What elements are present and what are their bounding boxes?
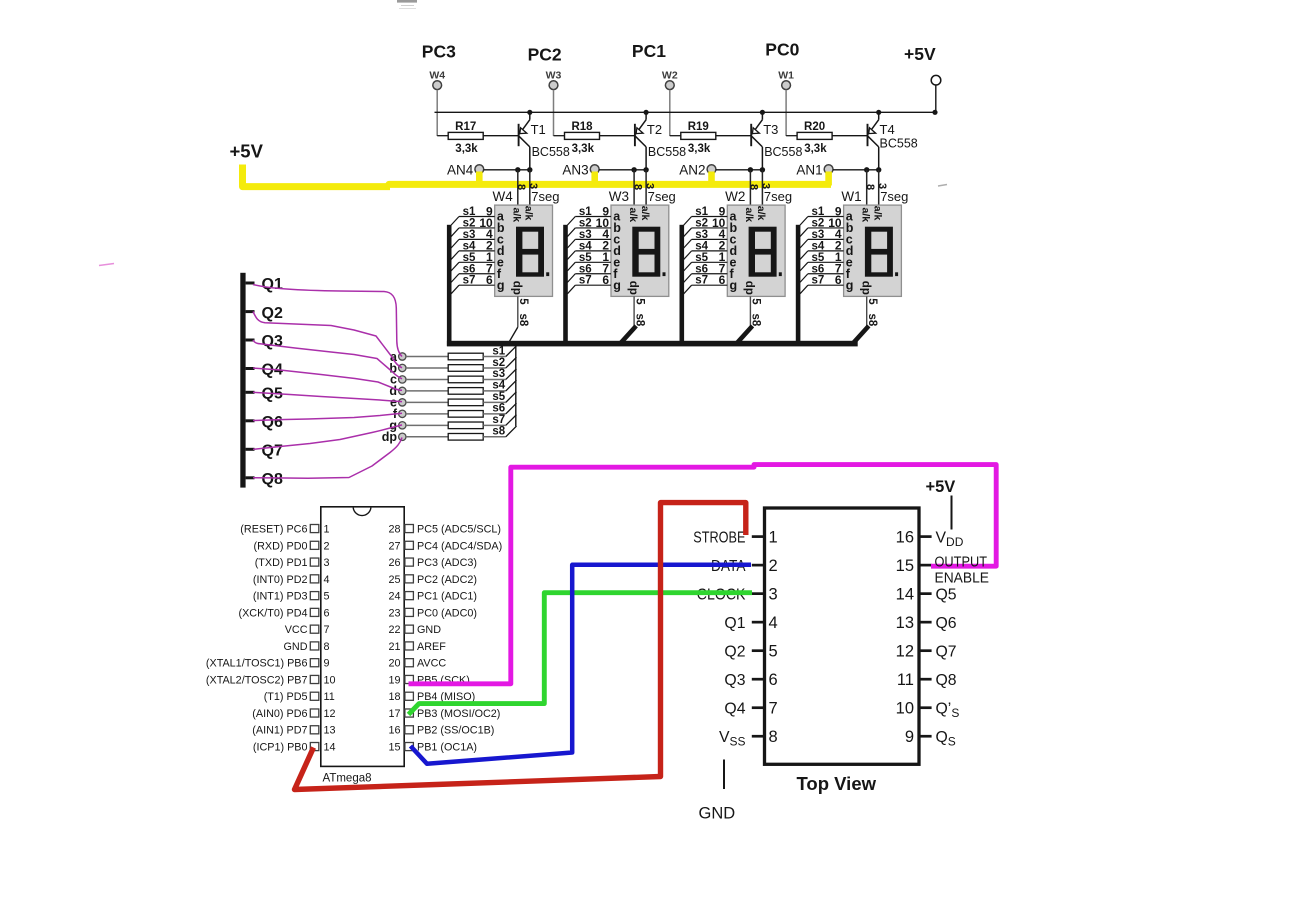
pin letter e [846, 256, 853, 270]
U1 pin 8 (GND) [284, 641, 330, 653]
segment net vertical collector line [515, 346, 517, 426]
Q8 bus tick [246, 476, 255, 479]
pin number 4 [719, 227, 726, 241]
U1 pin 12 ((AIN0) PD6) [252, 708, 335, 720]
+5V supply label (U2) [926, 478, 956, 496]
svg-text:W2: W2 [725, 189, 745, 204]
svg-text:W2: W2 [662, 70, 678, 82]
transistor T1 BC558 [519, 111, 530, 169]
svg-text:6: 6 [602, 273, 609, 287]
net label s1 [579, 206, 592, 218]
svg-text:s7: s7 [579, 275, 592, 287]
U2 pin label Q2 [724, 643, 745, 660]
svg-text:PB1 (OC1A): PB1 (OC1A) [417, 742, 477, 754]
pin letter d [613, 244, 621, 258]
yellow stub at AN3 [591, 172, 598, 186]
pin letter f [730, 267, 735, 281]
svg-text:s2: s2 [463, 217, 476, 229]
display W4 dp/s8 wire [509, 296, 518, 342]
label W1 [841, 189, 861, 204]
display W3 pin g (s7) wire [567, 285, 611, 294]
U1 pin 11 ((T1) PD5) [264, 691, 335, 703]
pin number 3 (rotated) [643, 183, 655, 189]
svg-text:5: 5 [324, 591, 330, 603]
U2 pin number 3 [769, 585, 778, 603]
svg-text:20: 20 [388, 658, 400, 670]
svg-text:Q7: Q7 [262, 443, 283, 460]
U2 pin 4 stub [752, 621, 765, 624]
wire +5V to VDD pin 16 [951, 496, 953, 530]
display W3 decimal point [663, 272, 666, 276]
net label s4 [579, 240, 592, 252]
svg-text:12: 12 [896, 642, 914, 660]
svg-text:PB2 (SS/OC1B): PB2 (SS/OC1B) [417, 725, 494, 737]
display W3 dp label (rotated) [627, 281, 639, 295]
svg-text:s4: s4 [695, 240, 708, 252]
segment resistor row s6 [406, 403, 517, 417]
U2 pin 6 stub [752, 678, 765, 681]
net label s4 [492, 380, 505, 392]
net label s4 [695, 240, 708, 252]
svg-text:9: 9 [905, 728, 914, 746]
svg-text:BC558: BC558 [648, 145, 686, 159]
net label s1 [492, 345, 505, 357]
svg-text:BC558: BC558 [532, 145, 570, 159]
svg-text:PC3: PC3 [422, 41, 456, 61]
net label s6 [579, 263, 592, 275]
net label s2 [812, 217, 825, 229]
U2 pin label VSS [719, 729, 746, 749]
pin number 10 [479, 216, 493, 230]
display W1 decimal point [895, 272, 898, 276]
svg-text:14: 14 [896, 585, 914, 603]
svg-text:14: 14 [324, 742, 336, 754]
svg-text:s2: s2 [812, 217, 825, 229]
svg-text:3,3k: 3,3k [804, 143, 827, 155]
display W3 a/k labels (rotated) [627, 206, 651, 222]
pin letter c [846, 233, 853, 247]
svg-text:a/k: a/k [511, 208, 523, 223]
net label s7 [492, 414, 505, 426]
U1 pin 10 ((XTAL2/TOSC2) PB7) [206, 674, 336, 686]
display W1 pin c (s3) wire [800, 239, 844, 248]
svg-text:Q8: Q8 [936, 672, 957, 689]
svg-text:a/k: a/k [639, 206, 651, 221]
label W3 [609, 189, 629, 204]
resistor R17 [437, 132, 518, 139]
svg-text:s1: s1 [492, 345, 505, 357]
display W3 pin e (s5) wire [567, 262, 611, 271]
display W4 dp label (rotated) [511, 281, 523, 295]
display W3 pin c (s3) wire [567, 239, 611, 248]
pin number 1 [602, 250, 609, 264]
label R19 [688, 121, 709, 133]
svg-text:s1: s1 [579, 206, 592, 218]
pin letter f [613, 267, 618, 281]
label 7seg [764, 189, 792, 204]
svg-text:Q6: Q6 [936, 615, 957, 632]
U1 pin 1 ((RESET) PC6) [240, 524, 329, 536]
blue wire PB1(OC1A) to DATA pin 2 [411, 565, 752, 764]
wire W2 down to base resistor [669, 90, 671, 136]
U2 pin 15 stub [919, 564, 932, 567]
net label s5 [579, 252, 592, 264]
svg-text:AREF: AREF [417, 641, 446, 653]
pin number 4 [486, 227, 493, 241]
svg-text:24: 24 [388, 591, 400, 603]
pin number 3 (rotated) [760, 183, 772, 189]
svg-text:5: 5 [633, 298, 645, 305]
svg-text:s1: s1 [695, 206, 708, 218]
svg-text:dp: dp [859, 281, 871, 295]
display W4 a/k labels (rotated) [511, 206, 535, 222]
net label s6 [695, 263, 708, 275]
value 3,3k [804, 143, 827, 155]
svg-text:5: 5 [866, 298, 878, 305]
wire AN3 to transistor collector [599, 169, 646, 171]
svg-text:1: 1 [769, 528, 778, 546]
svg-text:a/k: a/k [743, 208, 755, 223]
pin number 1 [835, 250, 842, 264]
U2 pin number 10 [896, 699, 914, 717]
wire W3 down to base resistor [553, 90, 555, 136]
net label s3 [812, 229, 825, 241]
U2 pin label DATA [711, 558, 746, 575]
svg-text:s8: s8 [492, 426, 505, 438]
pin number 2 [486, 239, 493, 253]
svg-text:(XTAL1/TOSC1) PB6: (XTAL1/TOSC1) PB6 [206, 658, 308, 670]
svg-text:7seg: 7seg [880, 189, 908, 204]
Q4 bus tick [246, 367, 255, 370]
U1 pin 13 ((AIN1) PD7) [252, 725, 335, 737]
pin number 10 [828, 216, 842, 230]
U2 pin number 11 [897, 671, 914, 689]
svg-text:10: 10 [896, 699, 914, 717]
pin letter g [730, 278, 738, 292]
svg-text:W4: W4 [493, 189, 514, 204]
U2 pin label Q8 [936, 672, 957, 689]
svg-text:R20: R20 [804, 121, 825, 133]
svg-text:Top View: Top View [797, 773, 877, 794]
svg-text:s8: s8 [866, 314, 878, 327]
wire Q5 to segment e [253, 392, 402, 401]
Q1 bus tick [246, 282, 255, 285]
svg-text:Q1: Q1 [262, 276, 283, 293]
shift register U2 body (Top View) [765, 508, 920, 764]
svg-text:STROBE: STROBE [693, 529, 745, 546]
svg-text:7seg: 7seg [531, 189, 559, 204]
U1 pin 6 ((XCK/T0) PD4) [239, 607, 330, 619]
U1 pin 23 (PC0 (ADC0)) [388, 607, 477, 619]
U1 pin 28 (PC5 (ADC5/SCL)) [388, 524, 501, 536]
U2 pin label STROBE [693, 529, 745, 546]
display W4 pin e (s5) wire [451, 262, 495, 271]
+5V supply label (left) [230, 141, 264, 162]
scan artifact top edge [397, 0, 417, 9]
node e terminal [390, 396, 406, 410]
net label s4 [812, 240, 825, 252]
resistor R20 [786, 132, 867, 139]
segment resistor row s1 [406, 346, 517, 360]
svg-text:s6: s6 [579, 263, 592, 275]
net label s1 [695, 206, 708, 218]
display W4 pin b (s2) wire [451, 228, 495, 237]
net label s7 [695, 275, 708, 287]
U1 pin 17 (PB3 (MOSI/OC2)) [388, 708, 500, 720]
svg-text:dp: dp [743, 281, 755, 295]
svg-text:25: 25 [388, 574, 400, 586]
svg-text:5: 5 [750, 298, 762, 305]
svg-text:2: 2 [769, 557, 778, 575]
U1 pin 20 (AVCC) [388, 658, 446, 670]
U2 pin 3 stub [752, 592, 765, 595]
svg-text:11: 11 [897, 671, 914, 689]
svg-text:s6: s6 [812, 263, 825, 275]
pin number 8 (rotated) [748, 184, 760, 190]
pin number 6 [602, 273, 609, 287]
svg-text:s5: s5 [695, 252, 708, 264]
wire Q1 to segment a [253, 285, 402, 357]
node W3 terminal [546, 70, 562, 90]
segment resistor row s7 [406, 415, 517, 429]
pin number 6 [835, 273, 842, 287]
svg-text:s7: s7 [695, 275, 708, 287]
net label s7 [812, 275, 825, 287]
net label s1 [463, 206, 476, 218]
wire Q7 to segment g [253, 425, 402, 449]
pin number 7 [719, 262, 726, 276]
net label s6 [492, 403, 505, 415]
net label Q5 [262, 386, 283, 403]
wire W4 down to base resistor [436, 90, 438, 136]
svg-text:Q3: Q3 [262, 333, 283, 350]
svg-text:8: 8 [864, 184, 876, 190]
segment bus vertical bar (W4) [447, 225, 452, 346]
display W1 pin d (s4) wire [800, 251, 844, 260]
svg-text:s5: s5 [579, 252, 592, 264]
svg-text:s7: s7 [492, 414, 505, 426]
svg-text:(RESET) PC6: (RESET) PC6 [240, 524, 307, 536]
U2 pin number 6 [769, 671, 778, 689]
U2 pin number 14 [896, 585, 914, 603]
pin number 3 (rotated) [876, 183, 888, 189]
svg-text:BC558: BC558 [880, 137, 918, 151]
svg-text:PC1 (ADC1): PC1 (ADC1) [417, 591, 477, 603]
node g terminal [389, 419, 406, 433]
svg-text:22: 22 [388, 624, 400, 636]
svg-text:8: 8 [748, 184, 760, 190]
pin number 2 [835, 239, 842, 253]
display W4 body [495, 205, 553, 296]
label Top View [797, 773, 877, 794]
display W3 pin b (s2) wire [567, 228, 611, 237]
node c terminal [390, 373, 406, 387]
microcontroller U1 ATmega8 body [321, 507, 404, 767]
Q7 bus tick [246, 448, 255, 451]
node AN2 terminal [679, 162, 716, 177]
port label PC2 [528, 45, 562, 65]
U2 pin number 13 [896, 614, 914, 632]
display W4 decimal point [546, 272, 549, 276]
pin letter c [613, 233, 620, 247]
svg-text:9: 9 [324, 658, 330, 670]
Q6 bus tick [246, 419, 255, 422]
display W3 pin f (s6) wire [567, 274, 611, 283]
svg-text:PC3 (ADC3): PC3 (ADC3) [417, 557, 477, 569]
label T1 [531, 122, 546, 137]
U2 pin 11 stub [919, 678, 932, 681]
node b terminal [389, 361, 406, 375]
svg-text:s4: s4 [579, 240, 592, 252]
svg-text:6: 6 [486, 273, 493, 287]
net label s3 [463, 229, 476, 241]
net label s8 (rotated) [517, 314, 529, 327]
svg-text:s8: s8 [517, 314, 529, 327]
label T4 [880, 122, 895, 137]
pin number 5 (rotated) [866, 298, 878, 305]
svg-text:7seg: 7seg [648, 189, 676, 204]
svg-text:Q2: Q2 [262, 305, 283, 322]
svg-text:W1: W1 [778, 70, 794, 82]
U1 pin 3 ((TXD) PD1) [255, 557, 330, 569]
pin letter f [846, 267, 851, 281]
svg-text:a/k: a/k [523, 206, 535, 221]
U2 pin 1 stub [752, 535, 765, 538]
pin number 1 [719, 250, 726, 264]
wire W1 down to base resistor [785, 90, 787, 136]
net label s7 [463, 275, 476, 287]
display W2 decimal point [779, 272, 782, 276]
svg-text:Q6: Q6 [262, 414, 283, 431]
display W3 dp/s8 wire [622, 296, 635, 342]
net label Q3 [262, 333, 283, 350]
pin letter a [613, 210, 621, 224]
net label Q6 [262, 414, 283, 431]
svg-text:19: 19 [388, 674, 400, 686]
net label s8 [492, 426, 505, 438]
svg-text:PC5 (ADC5/SCL): PC5 (ADC5/SCL) [417, 524, 501, 536]
pin number 8 (rotated) [631, 184, 643, 190]
junction display pins on AN4 wire [515, 167, 532, 172]
display W1 pin g (s7) wire [800, 285, 844, 294]
svg-text:g: g [730, 278, 738, 292]
svg-text:PC1: PC1 [632, 41, 666, 61]
display W2 7seg a/k pin wires to AN row [750, 170, 762, 205]
scan artifact gray dash [938, 185, 947, 187]
svg-text:3: 3 [769, 585, 778, 603]
svg-text:s3: s3 [695, 229, 708, 241]
net label s8 (rotated) [866, 314, 878, 327]
display W2 body [727, 205, 785, 296]
pin letter a [497, 210, 505, 224]
pin letter b [613, 221, 621, 235]
svg-text:26: 26 [388, 557, 400, 569]
display W2 pin a (s1) wire [684, 217, 728, 226]
wire Q2 to segment b [253, 312, 402, 368]
U2 pin 12 stub [919, 649, 932, 652]
svg-text:g: g [846, 278, 854, 292]
display W3 digit 8 [632, 227, 660, 277]
red wire PB0(ICP1) to STROBE pin 1 [295, 503, 746, 790]
pin letter c [730, 233, 737, 247]
display W1 pin e (s5) wire [800, 262, 844, 271]
label ATmega8 [323, 772, 372, 784]
U2 pin label Q4 [724, 700, 745, 717]
label R20 [804, 121, 825, 133]
net label s3 [492, 368, 505, 380]
svg-text:11: 11 [324, 691, 335, 703]
display W3 7seg a/k pin wires to AN row [634, 170, 646, 205]
segment bus horizontal bar [447, 341, 858, 347]
+5V terminal (top right) [931, 75, 941, 112]
node W2 terminal [662, 70, 678, 90]
U2 pin 8 stub [752, 735, 765, 738]
svg-text:18: 18 [388, 691, 400, 703]
pin letter d [497, 244, 505, 258]
display W2 a/k labels (rotated) [743, 206, 767, 222]
label R17 [455, 121, 476, 133]
label W4 [493, 189, 514, 204]
node f terminal [393, 407, 406, 421]
svg-text:T1: T1 [531, 122, 546, 137]
scan artifact pink dash left [99, 264, 114, 266]
display W2 dp label (rotated) [743, 281, 755, 295]
segment bus vertical bar (W1) [796, 225, 801, 346]
segment bus vertical bar (W3) [563, 225, 568, 346]
segment resistor row s8 [406, 426, 517, 440]
node dp terminal [382, 430, 406, 444]
display W4 pin d (s4) wire [451, 251, 495, 260]
display W4 pin c (s3) wire [451, 239, 495, 248]
svg-text:a/k: a/k [871, 206, 883, 221]
display W2 dp/s8 wire [738, 296, 751, 342]
pin letter c [497, 233, 504, 247]
svg-text:dp: dp [382, 430, 398, 444]
U2 pin label OUTPUT ENABLE [935, 554, 990, 587]
svg-text:a/k: a/k [859, 208, 871, 223]
pin number 7 [602, 262, 609, 276]
net label s4 [463, 240, 476, 252]
display W4 pin g (s7) wire [451, 285, 495, 294]
svg-text:s2: s2 [579, 217, 592, 229]
svg-text:(AIN0) PD6: (AIN0) PD6 [252, 708, 307, 720]
svg-text:W3: W3 [609, 189, 629, 204]
U2 pin label Q6 [936, 615, 957, 632]
U2 pin number 7 [769, 699, 778, 717]
port label PC1 [632, 41, 666, 61]
label BC558 [532, 145, 570, 159]
svg-text:PB3 (MOSI/OC2): PB3 (MOSI/OC2) [417, 708, 500, 720]
svg-text:3,3k: 3,3k [572, 143, 595, 155]
svg-text:Q4: Q4 [724, 700, 745, 717]
pin number 6 [486, 273, 493, 287]
svg-text:1: 1 [324, 524, 330, 536]
display W2 pin e (s5) wire [684, 262, 728, 271]
+5V supply label (top right) [904, 44, 936, 64]
transistor T3 BC558 [751, 111, 762, 169]
display W3 pin a (s1) wire [567, 217, 611, 226]
svg-text:s7: s7 [463, 275, 476, 287]
U2 pin label Q3 [724, 672, 745, 689]
svg-text:(XCK/T0) PD4: (XCK/T0) PD4 [239, 607, 308, 619]
U1 pin 15 (PB1 (OC1A)) [388, 742, 477, 754]
segment resistor row s3 [406, 369, 517, 383]
svg-text:4: 4 [324, 574, 330, 586]
pin letter d [730, 244, 738, 258]
pin number 8 (rotated) [515, 184, 527, 190]
Q5 bus tick [246, 391, 255, 394]
U1 pin 27 (PC4 (ADC4/SDA)) [388, 540, 502, 552]
